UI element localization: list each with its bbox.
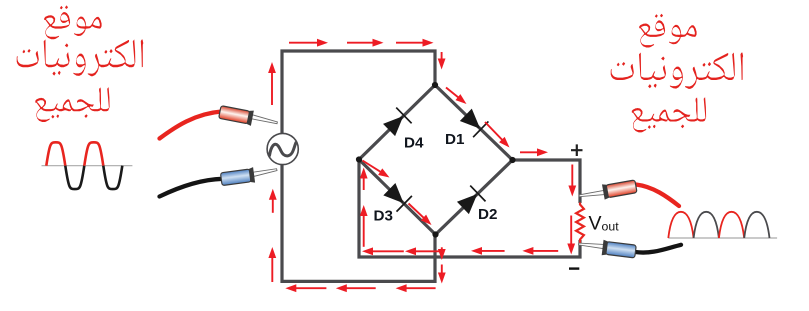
arrow top wire 3 [396, 42, 425, 44]
arrow minus wire 1 [371, 250, 404, 252]
svg-text:D3: D3 [374, 208, 393, 225]
plus terminal label [571, 144, 583, 156]
arabic text L3 [35, 87, 109, 122]
AC source circle [267, 133, 298, 164]
output hump 2 [694, 212, 719, 238]
input sine red hump 2 [84, 142, 103, 165]
svg-text:Vout: Vout [589, 213, 620, 235]
arrow right node to plus [520, 151, 539, 153]
arrow along D3 before [363, 161, 382, 173]
output hump 1 [668, 212, 693, 238]
arrow down load top [571, 165, 573, 188]
input sine black trough 1 [65, 166, 84, 189]
arrow up left wire above source [271, 71, 273, 105]
probe blue right (scope - lead) [635, 245, 681, 253]
input sine red hump 1 [46, 142, 65, 165]
node top junction dot [432, 82, 438, 88]
arrow bottom wire 2 [345, 287, 376, 289]
arrow down at bridge top [441, 52, 443, 61]
arrow top wire 2 [347, 42, 375, 44]
svg-text:D4: D4 [404, 135, 424, 152]
arrow minus wire 4 [531, 250, 558, 252]
arrow along D1 after [485, 122, 503, 141]
svg-text:D2: D2 [478, 206, 497, 223]
diode D2 [455, 186, 485, 216]
output waveform axis [668, 237, 777, 239]
probe red left (AC hot lead) [160, 112, 222, 139]
diode D4 [381, 108, 411, 138]
arrow minus wire 3 [480, 250, 505, 252]
probe red right (scope + lead) [636, 185, 679, 207]
output hump 4 [744, 212, 769, 238]
arrow bottom wire 3 [405, 287, 436, 289]
wire: right node to + corner and down to resistor [513, 160, 581, 203]
arrow along D3 after [409, 204, 425, 219]
arrow down bottom node upper [441, 247, 443, 251]
probe blue left (AC return lead) [160, 179, 223, 197]
output hump 3 [719, 212, 744, 238]
node right junction dot [509, 157, 515, 163]
input waveform axis [42, 165, 133, 167]
resistor Vout load (red zigzag) [576, 203, 584, 244]
arrow up left wire below source [272, 198, 274, 213]
diode D3 [382, 181, 412, 211]
diode D1 [458, 107, 488, 137]
wire: outer loop (source to bridge AC nodes) [282, 51, 435, 281]
arrow down load bottom [570, 216, 572, 246]
arrow minus wire 2 [414, 250, 444, 252]
arrow down bottom node lower [441, 265, 443, 275]
arabic text R2 [611, 53, 743, 89]
bridge diamond edges [359, 85, 513, 235]
arrow bottom wire 1 [294, 287, 326, 289]
AC source sine symbol [270, 143, 297, 156]
arrow up left wire bottom [271, 256, 273, 282]
node bottom junction dot [432, 231, 438, 237]
arrow top wire 1 [289, 42, 319, 44]
arrow up below left node 2 [363, 214, 365, 247]
arabic text L1 [44, 5, 101, 39]
minus terminal label [569, 267, 579, 269]
arabic text R1 [639, 14, 696, 48]
arrow up below left node 1 [363, 177, 365, 191]
arabic text L2 [17, 39, 144, 76]
arrow along D1 before [446, 88, 460, 99]
wire: left node down and across to load bottom [359, 160, 580, 258]
node left junction dot [356, 156, 362, 162]
input sine black trough 2 [103, 166, 122, 189]
arabic text R3 [632, 97, 706, 132]
svg-text:D1: D1 [445, 131, 465, 148]
